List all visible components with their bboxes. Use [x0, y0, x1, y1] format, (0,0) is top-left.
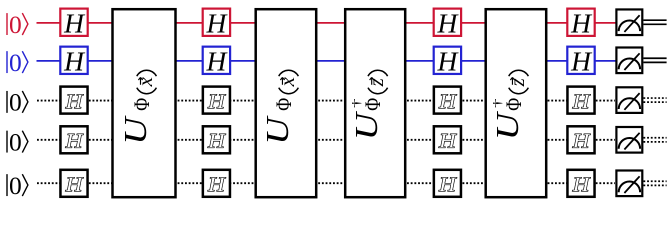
svg-text:U: U — [349, 111, 384, 140]
wire q2 (black, dotted) — [37, 100, 615, 102]
svg-text:0: 0 — [9, 171, 22, 200]
measurement gate q4 — [616, 171, 642, 197]
classical double wire c3 (dotted) — [643, 138, 666, 142]
svg-text:H: H — [570, 7, 593, 38]
svg-text:H: H — [570, 45, 593, 76]
svg-text:Φ: Φ — [502, 98, 526, 111]
H gate col2 q4 (outline) — [203, 170, 230, 197]
svg-text:H: H — [436, 45, 459, 76]
ket |0> q3 — [7, 127, 28, 156]
wire q0 (red, solid) — [37, 22, 616, 24]
svg-text:H: H — [63, 45, 86, 76]
svg-text:0: 0 — [9, 88, 22, 117]
unitary block U_Phi(x) #2 — [256, 9, 317, 197]
svg-text:0: 0 — [9, 127, 22, 156]
H gate col3 q4 (outline) — [434, 170, 461, 197]
svg-text:0: 0 — [9, 10, 22, 39]
H gate col1 q1 (blue) — [60, 45, 87, 76]
svg-text:H: H — [207, 131, 226, 153]
measurement gate q1 — [616, 48, 642, 74]
svg-text:H: H — [572, 91, 591, 113]
H gate col4 q1 (blue) — [567, 45, 594, 76]
svg-text:Φ: Φ — [130, 98, 154, 111]
H gate col2 q1 (blue) — [203, 45, 230, 76]
classical double wire c2 (dotted) — [643, 98, 666, 102]
H gate col1 q3 (outline) — [60, 126, 87, 153]
svg-text:x: x — [133, 76, 157, 87]
svg-text:U: U — [490, 111, 525, 140]
svg-text:H: H — [436, 7, 459, 38]
ket |0> q2 — [7, 88, 28, 117]
svg-text:H: H — [572, 174, 591, 196]
H gate col2 q3 (outline) — [203, 126, 230, 153]
measurement gate q0 — [616, 9, 642, 35]
svg-text:0: 0 — [9, 48, 22, 77]
H gate col4 q0 (red) — [567, 7, 594, 38]
H gate col1 q2 (outline) — [60, 87, 87, 114]
svg-text:H: H — [63, 7, 86, 38]
svg-text:H: H — [438, 131, 457, 153]
svg-text:z: z — [364, 78, 388, 87]
ket |0> q4 — [7, 171, 28, 200]
svg-text:z: z — [505, 78, 529, 87]
H gate col4 q3 (outline) — [567, 126, 594, 153]
H gate col4 q4 (outline) — [567, 170, 594, 197]
svg-text:Φ: Φ — [361, 98, 385, 111]
H gate col1 q0 (red) — [60, 7, 87, 38]
wire q4 (black, dotted) — [37, 182, 615, 184]
H gate col3 q1 (blue) — [434, 45, 461, 76]
H gate col3 q3 (outline) — [434, 126, 461, 153]
wire q1 (blue, solid) — [37, 60, 616, 62]
svg-text:H: H — [65, 131, 84, 153]
svg-text:H: H — [65, 174, 84, 196]
measurement gate q2 — [616, 87, 642, 113]
wire q3 (black, dotted) — [37, 139, 615, 141]
svg-text:H: H — [207, 91, 226, 113]
ket |0> q1 — [7, 48, 28, 77]
H gate col3 q2 (outline) — [434, 87, 461, 114]
svg-text:H: H — [207, 174, 226, 196]
classical double wire c1 — [643, 58, 666, 62]
H gate col2 q0 (red) — [203, 7, 230, 38]
H gate col4 q2 (outline) — [567, 87, 594, 114]
classical double wire c4 (dotted) — [643, 181, 666, 185]
svg-text:H: H — [438, 174, 457, 196]
svg-text:H: H — [438, 91, 457, 113]
svg-text:U: U — [260, 115, 295, 144]
ket |0> q0 — [7, 10, 28, 39]
svg-text:H: H — [205, 45, 228, 76]
svg-text:H: H — [205, 7, 228, 38]
classical double wire c0 — [643, 20, 666, 24]
H gate col1 q4 (outline) — [60, 170, 87, 197]
svg-text:H: H — [65, 91, 84, 113]
unitary block U-dagger_Phi(z) #3 — [345, 9, 405, 197]
svg-text:Φ: Φ — [272, 98, 296, 111]
svg-text:H: H — [572, 131, 591, 153]
H gate col3 q0 (red) — [434, 7, 461, 38]
measurement gate q3 — [616, 127, 642, 153]
H gate col2 q2 (outline) — [203, 87, 230, 114]
unitary block U_Phi(x) #1 — [113, 9, 176, 197]
unitary block U-dagger_Phi(z) #4 — [486, 9, 547, 197]
svg-text:U: U — [118, 115, 153, 144]
svg-text:x: x — [275, 76, 299, 87]
